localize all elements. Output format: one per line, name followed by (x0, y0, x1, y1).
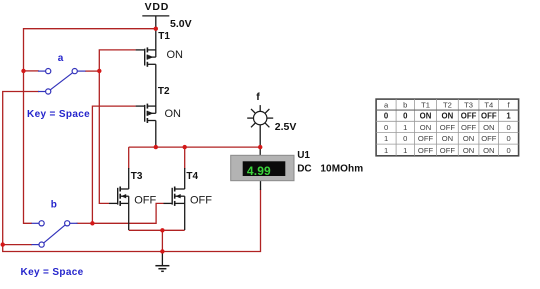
svg-text:OFF: OFF (481, 134, 497, 143)
svg-text:ON: ON (442, 134, 453, 143)
svg-text:OFF: OFF (461, 112, 477, 121)
svg-text:U1: U1 (297, 150, 310, 161)
svg-text:OFF: OFF (440, 123, 456, 132)
svg-text:ON: ON (463, 146, 474, 155)
svg-text:T4: T4 (484, 101, 493, 110)
svg-text:2.5V: 2.5V (275, 121, 297, 133)
svg-text:1: 1 (403, 146, 407, 155)
svg-text:b: b (403, 101, 407, 110)
svg-text:OFF: OFF (418, 134, 434, 143)
svg-text:T2: T2 (158, 86, 170, 97)
svg-text:ON: ON (167, 49, 184, 61)
svg-text:0: 0 (384, 123, 388, 132)
svg-text:T3: T3 (131, 171, 143, 182)
svg-text:ON: ON (420, 123, 431, 132)
svg-text:ON: ON (165, 108, 182, 120)
svg-text:OFF: OFF (481, 112, 497, 121)
svg-text:OFF: OFF (134, 195, 156, 207)
svg-text:1: 1 (384, 146, 388, 155)
svg-text:0: 0 (384, 112, 389, 121)
svg-text:Key = Space: Key = Space (21, 267, 84, 278)
svg-text:DC: DC (297, 163, 311, 174)
svg-text:0: 0 (506, 123, 510, 132)
svg-text:T3: T3 (464, 101, 473, 110)
svg-text:0: 0 (506, 134, 510, 143)
svg-text:f: f (256, 91, 260, 103)
svg-text:OFF: OFF (440, 146, 456, 155)
svg-text:a: a (58, 53, 64, 64)
svg-text:T1: T1 (421, 101, 430, 110)
svg-text:ON: ON (463, 134, 474, 143)
svg-text:ON: ON (483, 123, 494, 132)
svg-text:1: 1 (384, 134, 388, 143)
svg-text:OFF: OFF (461, 123, 477, 132)
svg-text:OFF: OFF (190, 195, 212, 207)
svg-text:0: 0 (403, 112, 408, 121)
svg-text:5.0V: 5.0V (170, 18, 192, 30)
svg-text:0: 0 (506, 146, 510, 155)
svg-text:VDD: VDD (145, 1, 170, 13)
svg-text:ON: ON (442, 112, 454, 121)
svg-text:ON: ON (483, 146, 494, 155)
svg-text:T2: T2 (443, 101, 452, 110)
svg-text:1: 1 (506, 112, 511, 121)
svg-text:10MOhm: 10MOhm (320, 163, 363, 174)
svg-text:OFF: OFF (418, 146, 434, 155)
svg-text:4.99: 4.99 (247, 164, 271, 178)
svg-text:0: 0 (403, 134, 407, 143)
svg-text:b: b (51, 200, 57, 211)
svg-text:Key = Space: Key = Space (27, 109, 90, 120)
svg-text:1: 1 (403, 123, 407, 132)
svg-text:T1: T1 (158, 31, 170, 42)
svg-text:ON: ON (420, 112, 432, 121)
svg-text:T4: T4 (186, 171, 198, 182)
